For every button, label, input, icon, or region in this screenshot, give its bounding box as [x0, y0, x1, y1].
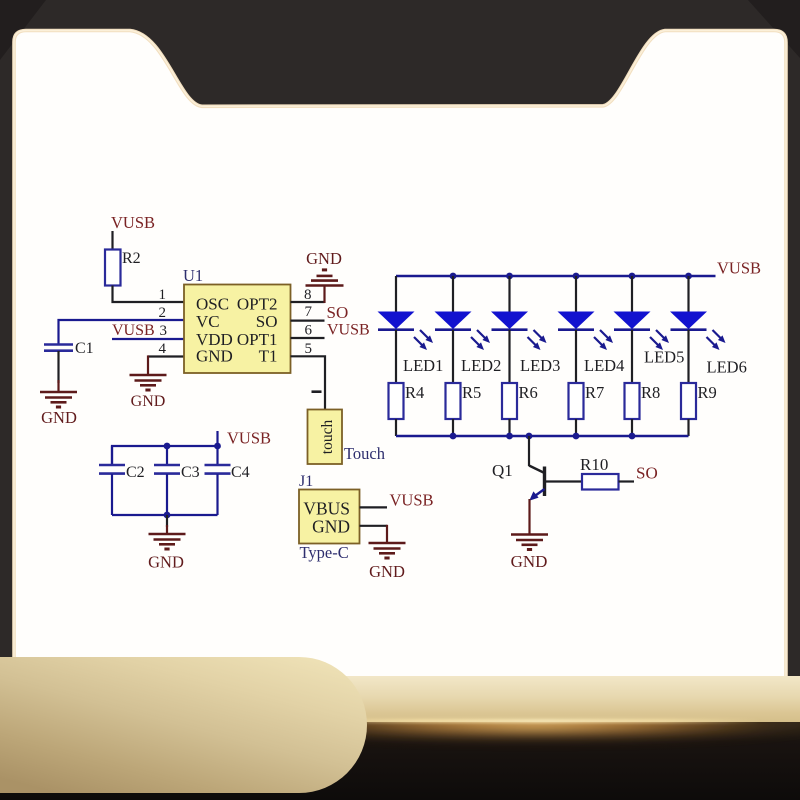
node caps C3 top — [164, 443, 171, 450]
svg-text:VUSB: VUSB — [112, 322, 155, 339]
svg-text:7: 7 — [305, 304, 313, 320]
wire caps bottom rail — [112, 514, 218, 516]
node bottom rail — [506, 433, 513, 440]
corner shade top-right — [748, 0, 800, 58]
svg-text:R5: R5 — [462, 383, 481, 402]
wire caps to ground — [166, 515, 168, 527]
wire C1 to ground — [57, 351, 59, 383]
capacitor C3 — [154, 446, 180, 515]
svg-text:VBUS: VBUS — [303, 499, 350, 519]
svg-text:OPT2: OPT2 — [237, 295, 278, 314]
wire pin3 VUSB — [112, 338, 184, 340]
wire Q1 base to R10 — [545, 480, 583, 482]
node caps bottom — [164, 512, 171, 519]
svg-text:R4: R4 — [405, 383, 424, 402]
LED LED6 arrows — [707, 330, 726, 350]
svg-text:GND: GND — [511, 552, 548, 571]
U1 pin names right — [237, 295, 278, 366]
node top rail — [629, 273, 636, 280]
transistor Q1 — [529, 466, 545, 501]
capacitor C4 — [205, 446, 231, 515]
resistor R2 — [105, 250, 121, 286]
ground (caps) — [149, 534, 186, 549]
svg-text:touch: touch — [319, 420, 336, 455]
svg-text:R7: R7 — [585, 383, 604, 402]
node top rail — [573, 273, 580, 280]
node bottom rail — [450, 433, 457, 440]
node caps VUSB — [214, 443, 221, 450]
svg-text:SO: SO — [256, 312, 278, 331]
svg-text:VUSB: VUSB — [111, 213, 155, 232]
wire R9 to bottom rail — [687, 419, 689, 436]
touch pad — [308, 410, 343, 465]
LED LED4 — [558, 276, 595, 383]
svg-text:R10: R10 — [580, 455, 608, 474]
LED LED5 — [614, 276, 651, 383]
wire R2 to pin1 — [113, 286, 185, 303]
LED LED1 arrows — [414, 330, 433, 350]
svg-text:Touch: Touch — [344, 444, 386, 463]
wire VUSB rail (caps top) — [112, 431, 218, 465]
svg-text:C3: C3 — [181, 464, 200, 481]
wire R7 to bottom rail — [575, 419, 577, 436]
svg-text:8: 8 — [304, 287, 312, 303]
LED LED5 arrows — [650, 330, 669, 350]
node bottom rail — [629, 433, 636, 440]
resistor R7 — [569, 383, 584, 419]
svg-text:J1: J1 — [299, 473, 313, 490]
wire R6 to bottom rail — [508, 419, 510, 436]
corner shade top-left — [0, 0, 46, 60]
svg-text:GND: GND — [196, 347, 233, 366]
bottom dark area — [0, 722, 800, 800]
svg-text:GND: GND — [312, 517, 350, 537]
wire pin5 to touch — [291, 356, 326, 409]
node bottom rail — [573, 433, 580, 440]
svg-text:VUSB: VUSB — [390, 491, 434, 510]
resistor R4 — [389, 383, 404, 419]
LED LED2 — [435, 276, 472, 383]
node top rail — [450, 273, 457, 280]
svg-text:R9: R9 — [698, 383, 717, 402]
svg-text:LED1: LED1 — [403, 356, 443, 375]
svg-text:LED6: LED6 — [707, 358, 747, 377]
svg-text:LED4: LED4 — [584, 356, 624, 375]
svg-text:R6: R6 — [519, 383, 538, 402]
svg-text:Type-C: Type-C — [300, 543, 349, 562]
svg-text:5: 5 — [305, 341, 313, 357]
svg-text:1: 1 — [159, 287, 167, 303]
svg-text:GND: GND — [148, 553, 184, 572]
ground (J1) — [369, 543, 406, 558]
svg-text:VUSB: VUSB — [327, 322, 370, 339]
svg-text:GND: GND — [369, 562, 405, 581]
wire pin6 VUSB — [291, 337, 325, 339]
ground (pin4) — [130, 375, 167, 390]
wire VBUS — [360, 506, 388, 508]
svg-text:LED2: LED2 — [461, 356, 501, 375]
ground up (pin8) — [306, 270, 344, 286]
op-amp U1 (IC body) — [184, 285, 291, 374]
svg-text:C4: C4 — [231, 464, 250, 481]
ground (Q1) — [511, 535, 548, 550]
svg-text:VUSB: VUSB — [717, 259, 761, 278]
svg-text:VUSB: VUSB — [227, 429, 271, 448]
capacitor C2 — [99, 446, 125, 515]
LED LED2 arrows — [471, 330, 490, 350]
svg-text:R2: R2 — [122, 250, 141, 267]
gold pill — [0, 657, 367, 793]
svg-text:LED5: LED5 — [644, 348, 684, 367]
LED LED3 — [491, 276, 528, 383]
svg-text:C2: C2 — [126, 464, 145, 481]
resistor R10 — [582, 474, 619, 490]
svg-text:GND: GND — [306, 249, 342, 268]
resistor R9 — [681, 383, 696, 419]
svg-text:U1: U1 — [183, 266, 203, 285]
node bottom rail — [526, 433, 533, 440]
wire pin8 — [291, 301, 325, 303]
svg-text:GND: GND — [131, 393, 166, 410]
shelf glow — [235, 708, 800, 742]
LED LED1 — [378, 276, 415, 383]
touch antenna dash — [312, 390, 322, 393]
LED LED6 — [670, 276, 707, 383]
wire VUSB to R2 — [111, 231, 113, 250]
wire pin7 SO — [291, 320, 325, 322]
svg-text:4: 4 — [159, 341, 167, 357]
gold shelf band — [0, 676, 800, 722]
svg-text:VC: VC — [196, 312, 220, 331]
wire R10 to SO — [619, 480, 635, 482]
svg-text:OSC: OSC — [196, 295, 229, 314]
svg-text:6: 6 — [305, 323, 313, 339]
svg-text:SO: SO — [327, 303, 349, 322]
svg-text:3: 3 — [160, 323, 168, 339]
svg-text:2: 2 — [159, 305, 167, 321]
svg-text:Q1: Q1 — [492, 461, 513, 480]
shelf bright edge — [280, 719, 760, 722]
node top rail — [685, 273, 692, 280]
node top rail — [506, 273, 513, 280]
LED LED4 arrows — [594, 330, 613, 350]
resistor R8 — [625, 383, 640, 419]
capacitor C1 — [44, 345, 73, 351]
wire VUSB top rail — [396, 275, 716, 277]
wire R5 to bottom rail — [452, 419, 454, 436]
connector J1 body — [299, 490, 360, 544]
resistor R5 — [446, 383, 461, 419]
LED LED3 arrows — [528, 330, 547, 350]
wire rail to Q1 collector — [528, 436, 530, 466]
svg-text:R8: R8 — [641, 383, 660, 402]
resistor R6 — [502, 383, 517, 419]
wire J1 GND — [360, 525, 388, 527]
wire R4 to bottom rail — [395, 419, 397, 436]
wire bottom rail — [396, 435, 689, 437]
wire R8 to bottom rail — [631, 419, 633, 436]
svg-text:C1: C1 — [75, 340, 94, 357]
svg-text:LED3: LED3 — [520, 356, 560, 375]
ground (C1) — [40, 392, 77, 407]
U1 pin names left — [196, 295, 233, 366]
wire Q1 emitter to ground — [528, 499, 530, 534]
svg-text:T1: T1 — [259, 347, 278, 366]
wire pin2 to C1 — [59, 320, 185, 344]
wire pin4 to ground — [148, 355, 184, 357]
svg-text:GND: GND — [41, 408, 77, 427]
svg-text:SO: SO — [636, 464, 658, 483]
